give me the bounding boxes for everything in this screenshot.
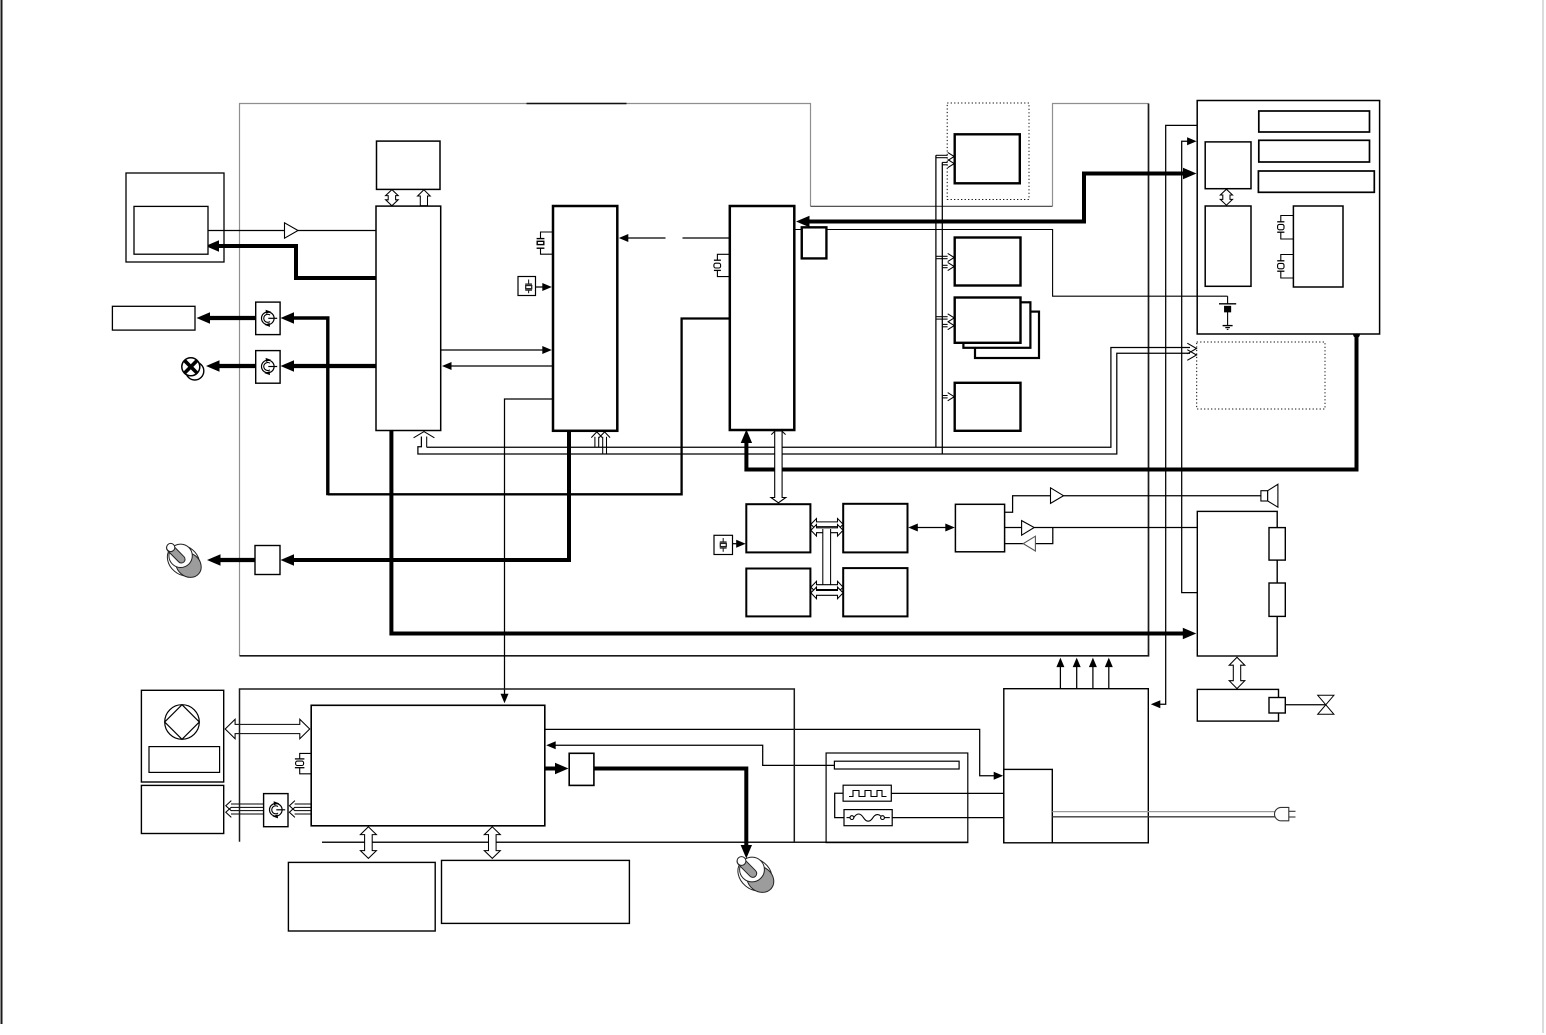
arrowhead into jack1 xyxy=(281,312,295,323)
small box right of B3 redraw xyxy=(802,227,827,258)
wire PSU up arrow 3 xyxy=(1092,663,1094,689)
bottom memory box2 xyxy=(442,860,630,923)
arrowhead into front AV rect xyxy=(197,312,211,323)
wire DSP D2 to audio box bidirectional xyxy=(914,527,949,529)
memory box C2 xyxy=(955,238,1021,286)
arrowhead small into B2 from clock1 xyxy=(542,283,552,291)
arrowhead into B3 right edge xyxy=(796,216,810,227)
junction dot top-right panel bottom xyxy=(1353,331,1360,338)
arrowhead small into top-right box left xyxy=(1187,137,1197,145)
top-right panel box xyxy=(1197,101,1379,335)
antenna balun bowtie xyxy=(1318,695,1334,714)
memory feed arrow into C3 lower xyxy=(942,322,954,330)
wire pulse block to PSU xyxy=(891,792,1004,794)
wire B1 to B2 upper xyxy=(441,349,545,351)
memory box C3 xyxy=(955,298,1021,343)
DSP bus vertical channel xyxy=(823,529,831,589)
tuner circle-X symbol xyxy=(182,358,204,380)
memory feed arrow into C2 lower xyxy=(942,262,954,270)
thick wire big IC to jack4 out xyxy=(545,767,561,771)
DSP bus arrow D1-D2 lower xyxy=(811,525,843,537)
top-right panel crystal box xyxy=(1293,206,1343,287)
arrowhead small into B2 right from B3 xyxy=(619,234,629,242)
wire audio amp to speaker xyxy=(1005,496,1051,513)
arrowhead into AV terminal box thick xyxy=(1183,628,1197,639)
left front panel box xyxy=(141,690,223,782)
thick wire top-right panel down to B3 bottom xyxy=(746,334,1356,470)
arrowhead small into PSU right side xyxy=(1151,700,1161,708)
crystal2 at top-right panel xyxy=(1277,255,1293,279)
pulse block box xyxy=(843,785,891,801)
clock1 icon xyxy=(525,280,532,294)
crystal at big IC xyxy=(295,753,311,773)
small box right of B3 xyxy=(802,227,827,258)
wire audio return branch xyxy=(1035,528,1052,544)
ground symbol xyxy=(1219,296,1236,329)
wire AV terminal box to top-right box xyxy=(1182,141,1198,592)
clock1 box xyxy=(518,277,536,296)
hollow arrowhead bus into dashed box upper xyxy=(1187,343,1196,354)
crystal1 at top-right panel xyxy=(1277,216,1293,240)
AV connector 2 xyxy=(1269,583,1285,616)
AC plug icon xyxy=(1275,807,1296,820)
crystal at B3 xyxy=(714,254,730,276)
top-right panel small box2 xyxy=(1205,206,1251,286)
audio box xyxy=(955,504,1004,552)
bottom memory box1 xyxy=(288,862,435,931)
arrowhead small up PSU line1 xyxy=(1056,658,1064,668)
double arrow front panel to big IC xyxy=(225,719,310,739)
wire clock2 to DSP D1 xyxy=(733,543,741,545)
memory feed arrow into C3 upper xyxy=(936,314,954,322)
wire fuse block to PSU xyxy=(892,817,1004,819)
wire big IC to PSU standby block xyxy=(545,729,997,775)
hollow arrow under B2 right xyxy=(599,432,610,454)
jack2 box xyxy=(256,351,280,384)
jack4 box xyxy=(569,753,594,785)
DSP box D4 xyxy=(843,568,907,616)
double arrow big IC to bottom memory1 xyxy=(360,827,376,859)
main board outline notch bottom xyxy=(811,205,1053,207)
amp triangle speaker xyxy=(1051,488,1064,504)
fuse block box xyxy=(844,810,892,826)
jack5 box xyxy=(264,794,288,827)
thick wire jack1 to front AV rect xyxy=(206,316,256,320)
CRT inner box xyxy=(134,206,208,254)
memory box C3 shadow2 xyxy=(975,312,1039,358)
top-right panel rect1 xyxy=(1259,111,1370,132)
big IC box xyxy=(311,705,545,826)
wire CRT box to B1 xyxy=(208,230,285,232)
arrowhead into top-right panel xyxy=(1183,168,1197,179)
arrowhead into jack2 xyxy=(281,360,295,371)
wire B2 to bottom big IC xyxy=(505,399,554,696)
dashed box right middle xyxy=(1197,342,1325,409)
wire PSU up arrow 1 xyxy=(1059,663,1061,689)
wire bus lower line1 from B1 bottom arrow to dashed tuner box xyxy=(427,348,1190,448)
wire PSU up arrow 2 xyxy=(1076,663,1078,689)
wire pulse block left link xyxy=(835,793,844,817)
hollow arrow under B1 right shaft xyxy=(426,437,428,448)
wire big IC to degauss coil xyxy=(553,745,834,765)
bottom board outline left top right xyxy=(240,689,795,843)
DSP box D3 xyxy=(746,569,810,617)
block B2 xyxy=(553,206,617,431)
memory box C3 shadow1 xyxy=(963,302,1030,348)
thick wire jack4 to rear plug xyxy=(594,769,746,850)
antenna connector xyxy=(1269,698,1285,714)
double arrow in top-right panel xyxy=(1220,189,1232,205)
hollow arrow pair jack5 to left lower box upper xyxy=(226,801,264,811)
wire audio buffer to AV terminal box xyxy=(1005,527,1022,529)
AV terminal box xyxy=(1197,511,1277,656)
memory box C1 xyxy=(955,134,1020,183)
hollow arrow under B2 left xyxy=(591,432,602,447)
main board outline dark part xyxy=(240,104,1149,656)
thick wire B3 to AV jack1 loop xyxy=(328,319,730,495)
thick wire jack2 to tuner circle xyxy=(215,364,256,368)
buffer triangle audio in xyxy=(1023,536,1035,551)
memory feed arrow into C4 xyxy=(942,393,954,401)
memory feed arrow into C1 upper xyxy=(936,152,954,160)
buffer triangle CRT line xyxy=(285,223,299,238)
arrowhead into tuner circle xyxy=(206,360,220,371)
top-right panel rect3 xyxy=(1258,171,1374,192)
arrowhead small up PSU line4 xyxy=(1105,658,1113,668)
wire bus lower line2 from B1 bottom arrow to dashed tuner box xyxy=(418,353,1190,454)
page edge line right xyxy=(1542,0,1544,1033)
hollow arrow pair jack5 to left lower box lower xyxy=(226,807,264,817)
wire clock1 to B2 xyxy=(536,286,545,288)
arrowhead into jack3 xyxy=(281,554,295,565)
hollow arrowhead bus into dashed box lower xyxy=(1187,350,1196,361)
wire branch right vertical feeding memory column xyxy=(941,162,943,454)
arrowhead into CRT box xyxy=(206,240,220,251)
PSU standby sub-box xyxy=(1004,769,1053,842)
double arrow between top box and B1 xyxy=(386,190,399,206)
AC input box xyxy=(826,753,968,843)
clock2 icon xyxy=(720,538,727,552)
memory feed arrow into C1 lower xyxy=(942,160,954,168)
headphone plug icon front xyxy=(161,539,206,583)
thick wire B2 to headphone jack3 xyxy=(288,431,569,560)
left front panel inner rect xyxy=(149,747,220,773)
arrowhead small into B1 lower xyxy=(442,362,452,370)
PSU box xyxy=(1004,689,1149,843)
arrowhead small into PSU standby xyxy=(994,772,1004,780)
antenna tuner box xyxy=(1197,689,1278,721)
DSP box D1 xyxy=(746,504,810,552)
DSP bus arrow D3-D4 upper xyxy=(811,581,843,593)
dark segment on main board top edge xyxy=(527,103,627,105)
hollow arrow pair big IC to jack5 lower xyxy=(289,807,311,817)
bottom board outline bottom edge xyxy=(322,841,968,843)
block B1 xyxy=(376,206,441,430)
arrowhead down to rear plug xyxy=(741,845,752,859)
box above B1 xyxy=(377,141,441,189)
thick wire B1 to CRT box xyxy=(216,246,376,278)
hollow arrow pair big IC to jack5 upper xyxy=(289,801,311,811)
arrowhead small up PSU line3 xyxy=(1089,658,1097,668)
wire branch left vertical feeding memory column xyxy=(935,155,937,447)
dashed box around memory C1 xyxy=(947,103,1029,200)
front panel diamond circle icon xyxy=(165,705,200,740)
headphone plug icon rear xyxy=(731,851,779,898)
fuse glyph xyxy=(847,814,890,821)
front AV rect xyxy=(112,306,195,330)
arrowhead small into B2 upper xyxy=(542,346,552,354)
left lower box xyxy=(141,785,223,833)
hollow arrow B3 down to DSP D1 xyxy=(771,431,786,503)
arrowhead small up PSU line2 xyxy=(1073,658,1081,668)
wire PSU up arrow 4 xyxy=(1108,663,1110,689)
main board outline gray part xyxy=(240,104,1149,656)
buffer triangle audio out xyxy=(1022,521,1035,536)
jack1 box xyxy=(256,302,280,335)
thick wire B1 to jack2 xyxy=(288,364,376,368)
jack1 icon xyxy=(262,310,278,327)
AC cord lower line xyxy=(1052,816,1275,818)
wire B2 to B1 lower xyxy=(449,365,553,367)
arrowhead up into B3 bottom xyxy=(741,430,752,444)
page edge line left xyxy=(1,0,3,1024)
wire top-right box to PSU right side xyxy=(1157,125,1197,704)
up arrow between top box and B1 right xyxy=(418,190,431,206)
arrowhead small down into big IC xyxy=(501,694,509,704)
CRT outer box xyxy=(126,173,224,262)
double arrow big IC to bottom memory2 xyxy=(484,827,500,859)
memory feed arrow into C2 upper xyxy=(936,253,954,261)
degauss coil rect xyxy=(834,761,959,769)
top-right panel rect2 xyxy=(1259,140,1370,162)
arrowhead small into D2 right xyxy=(908,524,918,532)
thick wire jack3 to headphone plug xyxy=(216,558,255,562)
double arrow AV terminal to antenna box xyxy=(1229,657,1245,688)
jack2 icon xyxy=(262,358,278,375)
memory box C4 xyxy=(955,383,1021,431)
arrowhead small into big IC right from degauss xyxy=(546,741,556,749)
DSP box D2 xyxy=(843,504,907,553)
AC cord upper line xyxy=(1052,811,1275,813)
pulse waveform glyph xyxy=(849,791,887,797)
arrowhead into jack4 xyxy=(555,763,569,774)
wire B3 via buffer box to ground in top-right panel xyxy=(794,230,1227,297)
arrowhead small into D1 from clock2 xyxy=(736,540,746,548)
thick wire B3 to top-right panel xyxy=(804,174,1188,222)
AV connector 1 xyxy=(1269,528,1285,561)
jack3 box xyxy=(255,546,280,575)
thick wire B1 bottom to AV terminal box xyxy=(391,431,1188,634)
clock2 box xyxy=(714,535,733,554)
DSP bus arrow D1-D2 upper xyxy=(811,519,843,531)
crystal at B2 xyxy=(537,232,553,254)
wire B3 to B2 with gap xyxy=(626,237,666,239)
speaker icon xyxy=(1261,484,1278,507)
jack5 icon xyxy=(270,801,286,818)
top-right panel small box1 xyxy=(1205,142,1251,189)
DSP bus arrow D3-D4 lower xyxy=(811,587,843,599)
hollow arrow under B1 head xyxy=(414,432,435,438)
arrowhead into headphone plug xyxy=(207,554,221,565)
block B3 xyxy=(730,206,795,430)
arrowhead small into audio box left xyxy=(945,524,955,532)
wire antenna box to balun xyxy=(1285,704,1326,706)
